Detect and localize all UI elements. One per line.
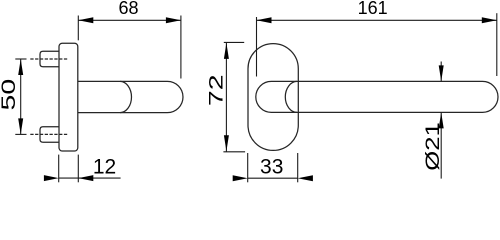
svg-text:72: 72 — [206, 74, 227, 106]
dimension 72 extension stubs — [223, 42, 245, 151]
dimension 161 line — [257, 19, 497, 21]
dimension 12 extension lines — [59, 155, 79, 183]
svg-text:33: 33 — [260, 156, 283, 179]
svg-text:50: 50 — [0, 79, 20, 111]
dimension 161 arrow right — [482, 17, 497, 23]
dimension 33 extension lines — [248, 153, 298, 182]
dimension 72 arrow up — [224, 43, 229, 59]
dimension 33 arrow right — [298, 175, 313, 181]
dimension 12 line — [59, 177, 121, 179]
svg-text:12: 12 — [93, 156, 116, 179]
dimension 161 arrow left — [257, 17, 272, 23]
dimension 50 arrow down — [18, 118, 23, 134]
screw bottom — [40, 127, 59, 142]
svg-text:161: 161 — [358, 0, 388, 18]
dimension 33 arrow left — [233, 175, 248, 181]
dimension 68 arrow right — [166, 17, 181, 23]
dimension 33 line — [248, 177, 298, 179]
dimension 72 arrow down — [224, 135, 229, 151]
lever front view — [256, 81, 498, 112]
centerline screw top — [30, 58, 68, 60]
centerline screw bottom — [30, 133, 68, 135]
screw top — [40, 51, 59, 66]
dimension 50 extension stubs — [15, 59, 26, 134]
dimension 12 arrow right — [78, 175, 93, 181]
dimension 72 line — [225, 42, 227, 151]
handle bar side view — [78, 81, 183, 112]
grip end arc side view — [120, 81, 131, 112]
dimension 68 arrow left — [78, 17, 93, 23]
svg-text:68: 68 — [118, 0, 138, 18]
rose plate side view — [59, 43, 78, 151]
grip left cap arc front view — [285, 81, 297, 112]
dimension 50 line — [20, 59, 22, 134]
dimension dia21 leader lines — [440, 62, 442, 179]
oval rose front view — [248, 44, 298, 151]
dimension 12 arrow left — [44, 175, 59, 181]
dimension dia21 arrow up — [439, 112, 444, 128]
dimension 68 line — [78, 19, 181, 21]
svg-text:Ø21: Ø21 — [422, 122, 443, 170]
dimension 68 extension lines — [78, 16, 181, 79]
dimension 161 extension lines — [257, 13, 497, 76]
dimension dia21 arrow down — [439, 65, 444, 81]
dimension 50 arrow up — [18, 59, 23, 75]
